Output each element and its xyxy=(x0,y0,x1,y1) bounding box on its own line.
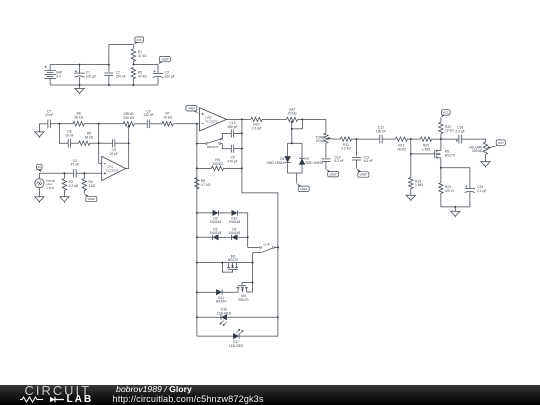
ground (input coupling) xyxy=(35,132,44,138)
diode D3 1N4148 xyxy=(213,235,219,240)
label R10 2.2 kΩ xyxy=(252,123,262,131)
svg-text:1N4148: 1N4148 xyxy=(229,231,241,235)
junction (278,248) xyxy=(277,247,279,249)
wire clipper top xyxy=(288,142,302,144)
label C9 10 pF xyxy=(109,148,117,156)
label C24 2.2 µF xyxy=(477,185,486,193)
wire xyxy=(296,173,298,184)
svg-text:26 kΩ: 26 kΩ xyxy=(74,115,83,119)
wire input row xyxy=(39,172,73,174)
resistor R9 xyxy=(212,166,224,170)
wire xyxy=(301,165,303,174)
svg-text:100 nF: 100 nF xyxy=(116,74,126,78)
ground (source) xyxy=(35,197,44,203)
label D10 1N4148 xyxy=(229,217,241,225)
label BAT 9 V xyxy=(56,70,62,78)
junction (133,85) xyxy=(132,84,134,86)
label R8 4.7 kΩ xyxy=(201,179,211,187)
wire OA2 non-inverting stub xyxy=(199,113,200,115)
wire R3 top lead xyxy=(63,173,65,178)
wire source network top xyxy=(441,168,470,189)
svg-text:2.2 kΩ: 2.2 kΩ xyxy=(252,126,262,130)
junction (253,282) xyxy=(252,281,254,283)
wire source top lead xyxy=(38,173,40,179)
label C7 10 nF xyxy=(45,109,53,117)
label C1 100 µF xyxy=(86,70,96,78)
junction (99,124) xyxy=(98,123,100,125)
LED D16 LED-RED xyxy=(221,315,227,320)
wire xyxy=(197,236,213,238)
potentiometer SAT (20k) xyxy=(287,117,298,121)
label C5 470 pF xyxy=(227,156,237,164)
svg-text:250 kΩ: 250 kΩ xyxy=(123,116,134,120)
net flag VREF (divider) xyxy=(158,56,170,64)
diode D10 1N4148 xyxy=(232,210,238,215)
battery BAT xyxy=(44,66,56,79)
svg-text:TLC2272: TLC2272 xyxy=(106,169,119,173)
junction (84,173) xyxy=(83,172,85,174)
capacitor C14 xyxy=(459,135,461,144)
junction (441,139) xyxy=(440,138,442,140)
wire to BRIGHT switch xyxy=(197,143,206,145)
svg-text:IN: IN xyxy=(38,165,41,169)
resistor R1 xyxy=(131,49,135,62)
wire xyxy=(238,236,248,238)
capacitor C24 (electrolytic) xyxy=(465,185,475,192)
wire xyxy=(247,282,253,292)
junction (99,143) xyxy=(98,142,100,144)
diode D11 BAT54 xyxy=(216,290,222,295)
label C6 120 nF xyxy=(143,109,153,117)
label R7 10 kΩ xyxy=(163,112,172,120)
net flag VREF (R4) xyxy=(84,194,97,202)
svg-text:180 pF: 180 pF xyxy=(227,125,237,129)
switch CLIP xyxy=(260,247,275,253)
resistor R23 xyxy=(439,183,443,194)
junction (129,143) xyxy=(128,142,130,144)
junction (197,144) xyxy=(196,143,198,145)
wire xyxy=(301,143,303,158)
wire to OA1 inverting input xyxy=(99,162,102,164)
wire VCC rail xyxy=(50,64,109,66)
label D17 LED-RED xyxy=(229,340,244,348)
potentiometer DRIVE wiper xyxy=(127,125,130,169)
label D3 1N4148 xyxy=(210,227,222,235)
svg-text:2.2 kΩ: 2.2 kΩ xyxy=(69,184,79,188)
diode D4 1N4148 xyxy=(232,235,238,240)
svg-text:20 kΩ: 20 kΩ xyxy=(288,112,297,116)
svg-text:VREF: VREF xyxy=(360,173,368,177)
resistor R3 xyxy=(62,179,66,191)
junction (278,317) xyxy=(277,316,279,318)
wire xyxy=(197,291,216,293)
capacitor C12 xyxy=(380,135,382,144)
wire xyxy=(150,123,162,125)
junction (356,139) xyxy=(356,138,358,140)
wire xyxy=(440,117,442,122)
label M4 BS170 xyxy=(239,294,249,302)
op-amp OA2 TLC2272 xyxy=(200,108,227,131)
wire xyxy=(252,253,254,283)
resistor R4 xyxy=(82,179,86,191)
svg-text:LED-RED: LED-RED xyxy=(229,344,244,348)
wire xyxy=(325,143,327,157)
junction (292,129) xyxy=(291,128,293,130)
net flag VREF (OA2+) xyxy=(186,106,199,114)
label R9 330 kΩ xyxy=(212,158,223,166)
capacitor C4 xyxy=(74,169,76,178)
svg-text:47 kΩ: 47 kΩ xyxy=(138,54,147,58)
transistor M4 BS170 (diode-connected) xyxy=(237,282,253,292)
label C13 180 pF xyxy=(227,121,237,129)
LED D16 rays xyxy=(220,321,227,326)
wire xyxy=(99,142,113,144)
svg-text:10 nF: 10 nF xyxy=(65,133,73,137)
svg-text:330 kΩ: 330 kΩ xyxy=(212,162,223,166)
resistor R20 xyxy=(420,137,431,141)
ground (power section) xyxy=(75,88,84,94)
label R19 1 MΩ xyxy=(415,179,423,187)
capacitor C3 (electrolytic) xyxy=(153,70,163,77)
junction (411,139) xyxy=(410,138,412,140)
potentiometer TONE wiper xyxy=(327,137,335,140)
ground (R19) xyxy=(406,195,415,201)
wire xyxy=(234,148,242,150)
svg-text:VCC: VCC xyxy=(443,111,450,115)
transistor M3 BS170 (diode-connected) xyxy=(222,263,238,273)
svg-text:1 kHz: 1 kHz xyxy=(46,186,54,190)
capacitor C11 xyxy=(352,158,361,161)
wire R2 bottom lead xyxy=(132,79,134,85)
svg-text:100 nF: 100 nF xyxy=(376,129,386,133)
wire R1 top lead xyxy=(132,44,134,48)
svg-text:2.2 µF: 2.2 µF xyxy=(477,189,486,193)
svg-text:470 Ω: 470 Ω xyxy=(445,189,454,193)
resistor R12 xyxy=(395,137,407,141)
wire R4 bottom lead xyxy=(83,191,85,194)
junction (59,124) xyxy=(58,123,60,125)
resistor R11 xyxy=(340,137,351,141)
wire xyxy=(335,138,340,140)
svg-text:4.7 kΩ: 4.7 kΩ xyxy=(201,183,211,187)
wire xyxy=(325,161,327,169)
svg-text:20 kΩ: 20 kΩ xyxy=(316,139,325,143)
svg-text:OUT: OUT xyxy=(498,141,504,145)
diode D9 1N4148 xyxy=(213,210,219,215)
plus mark C14 xyxy=(456,140,458,142)
label R5 36 kΩ xyxy=(85,132,94,140)
svg-text:120 nF: 120 nF xyxy=(143,113,153,117)
voltage source V1 (pickup sine) xyxy=(35,179,44,188)
junction (197,263) xyxy=(196,262,198,264)
label D7 SMD 1N914 xyxy=(305,157,323,165)
capacitor C8 xyxy=(68,139,70,148)
wire OA2 output xyxy=(227,118,242,120)
potentiometer TONE (20k) xyxy=(324,133,328,143)
resistor R22 xyxy=(439,122,443,133)
label R1 47 kΩ xyxy=(138,50,147,58)
wire xyxy=(432,138,459,140)
wire xyxy=(50,123,73,125)
net flag VCC (output) xyxy=(441,110,450,118)
junction (109,65) xyxy=(108,64,110,66)
wire row3 xyxy=(197,262,253,264)
wire xyxy=(71,142,79,144)
label R2 47 kΩ xyxy=(138,70,147,78)
wire xyxy=(173,123,197,125)
wire xyxy=(134,123,147,125)
svg-text:47 nF: 47 nF xyxy=(71,163,79,167)
svg-text:78 kΩ: 78 kΩ xyxy=(397,148,406,152)
net flag VREF (C11) xyxy=(357,168,369,177)
wire input row right xyxy=(76,172,102,174)
junction (441,168) xyxy=(440,167,442,169)
wire R1 bottom lead xyxy=(132,61,134,64)
wire xyxy=(440,168,442,183)
junction (253,263) xyxy=(252,262,254,264)
capacitor C6 xyxy=(147,120,149,129)
junction (197,292) xyxy=(196,291,198,293)
svg-text:VCC: VCC xyxy=(136,38,143,42)
wire xyxy=(248,246,260,248)
label C2 100 nF xyxy=(116,70,126,78)
label R22 12 kΩ xyxy=(445,125,454,133)
svg-text:470 pF: 470 pF xyxy=(227,159,237,163)
wire source network bottom xyxy=(441,192,470,207)
wire to C13 xyxy=(222,133,231,139)
LED D17 rays xyxy=(236,329,243,334)
net flag VREF (tone cap) xyxy=(326,169,339,177)
junction (411,154) xyxy=(410,153,412,155)
svg-text:SMD 1N914: SMD 1N914 xyxy=(267,161,285,165)
junction (197,168) xyxy=(196,167,198,169)
wire xyxy=(356,139,358,156)
svg-text:VREF: VREF xyxy=(188,107,196,111)
capacitor C13 xyxy=(231,129,233,137)
junction (248,237) xyxy=(247,236,249,238)
resistor R7 xyxy=(162,122,173,126)
svg-text:1 MΩ: 1 MΩ xyxy=(422,148,430,152)
wire xyxy=(287,143,289,156)
wire C1 bottom lead xyxy=(79,77,81,85)
resistor R10 xyxy=(251,117,262,121)
wire xyxy=(242,118,251,120)
wire OA2 inverting node riser xyxy=(196,124,198,189)
svg-text:VREF: VREF xyxy=(161,57,169,61)
svg-text:TLC2272: TLC2272 xyxy=(205,120,218,124)
wire M2 drain lead xyxy=(440,139,442,150)
wire xyxy=(325,119,327,133)
wire xyxy=(298,118,326,120)
op-amp OA1 TLC2272 xyxy=(102,156,126,180)
ground (VOLUME) xyxy=(481,162,490,168)
wire C2 bottom lead xyxy=(108,76,110,86)
resistor R6 xyxy=(73,122,84,126)
potentiometer SAT wiper xyxy=(290,120,293,143)
junction (242,168) xyxy=(241,167,243,169)
svg-text:VREF: VREF xyxy=(87,197,95,201)
svg-text:1 MΩ: 1 MΩ xyxy=(415,183,423,187)
svg-text:100 µF: 100 µF xyxy=(86,74,96,78)
label M3 BS170 xyxy=(228,254,238,262)
wire xyxy=(197,167,212,169)
junction (292,143) xyxy=(291,142,293,144)
junction (242,119) xyxy=(241,118,243,120)
wire xyxy=(262,118,286,120)
junction (242,133) xyxy=(241,132,243,134)
label R12 78 kΩ xyxy=(397,144,406,152)
label D9 1N4148 xyxy=(210,217,222,225)
wire xyxy=(352,138,380,140)
wire xyxy=(84,123,123,125)
LED D17 LED-RED xyxy=(233,333,239,338)
wire xyxy=(39,123,48,125)
label C11 6.2 nF xyxy=(364,155,373,163)
wire gate node riser xyxy=(410,139,412,177)
wire xyxy=(407,138,420,140)
label C3 100 µF xyxy=(165,70,175,78)
ground (source network) xyxy=(451,211,460,217)
label C12 100 nF xyxy=(376,126,386,134)
wire C1 top lead xyxy=(79,65,81,74)
svg-text:BS170: BS170 xyxy=(239,298,249,302)
wire CLIP common stub xyxy=(253,252,261,254)
junction (302,119) xyxy=(301,118,303,120)
wire xyxy=(238,213,248,248)
label D11 BAT54 xyxy=(216,296,226,304)
ground (R3) xyxy=(60,197,69,203)
label R23 470 Ω xyxy=(445,185,454,193)
wire output node rail xyxy=(242,119,278,336)
junction (242,149) xyxy=(241,148,243,150)
svg-text:10 kΩ: 10 kΩ xyxy=(163,115,172,119)
wire to VOLUME xyxy=(461,139,485,142)
wire ground stem xyxy=(79,85,81,88)
junction (133,64) xyxy=(132,63,134,65)
resistor R2 xyxy=(131,67,135,78)
resistor R5 xyxy=(79,141,90,145)
resistor R19 xyxy=(409,177,413,188)
svg-text:1N4148: 1N4148 xyxy=(229,220,241,224)
label R6 26 kΩ xyxy=(74,112,83,120)
net flag VREF (clipper) xyxy=(297,183,310,191)
svg-text:1N4148: 1N4148 xyxy=(210,231,222,235)
label M2 BS170 xyxy=(445,150,455,158)
wire left rail xyxy=(196,189,198,336)
label D16 LED-RED xyxy=(217,308,232,316)
svg-text:9 V: 9 V xyxy=(56,74,62,78)
wire xyxy=(219,212,232,214)
wire xyxy=(224,167,242,169)
label D4 1N4148 xyxy=(229,227,241,235)
wire to C8 branch xyxy=(59,124,68,143)
switch BRIGHT xyxy=(206,138,223,144)
junction (222,263) xyxy=(221,262,223,264)
wire C2 top lead xyxy=(108,65,110,72)
svg-text:BRIGHT: BRIGHT xyxy=(207,145,219,149)
svg-text:10 nF: 10 nF xyxy=(45,113,53,117)
svg-text:6.2 nF: 6.2 nF xyxy=(364,159,373,163)
junction (109,85) xyxy=(108,84,110,86)
svg-text:2.2 µF: 2.2 µF xyxy=(455,129,464,133)
wire source bottom lead xyxy=(38,188,40,197)
capacitor C1 (electrolytic) xyxy=(74,70,84,77)
wire C3 top lead xyxy=(157,64,159,73)
junction (197,124) xyxy=(196,123,198,125)
wire to OA2 inverting input xyxy=(197,123,200,125)
label pickup sine 1 kHz xyxy=(46,179,55,190)
svg-text:2.2 kΩ: 2.2 kΩ xyxy=(341,147,351,151)
svg-text:SMD 1N914: SMD 1N914 xyxy=(305,161,323,165)
label D6 SMD 1N914 xyxy=(267,157,285,165)
wire xyxy=(197,212,213,214)
svg-text:36 kΩ: 36 kΩ xyxy=(85,135,94,139)
wire xyxy=(274,247,278,249)
label R3 2.2 kΩ xyxy=(69,180,79,188)
junction (197,317) xyxy=(196,316,198,318)
wire VREF node row xyxy=(133,63,158,65)
svg-text:10 pF: 10 pF xyxy=(109,152,117,156)
svg-text:1N4148: 1N4148 xyxy=(210,220,222,224)
capacitor C7 xyxy=(48,120,51,129)
wire bottom rail xyxy=(50,84,158,86)
svg-text:VREF: VREF xyxy=(300,187,308,191)
capacitor C2 xyxy=(104,73,113,76)
wire SAT rheostat loop xyxy=(292,119,303,128)
junction (80,65) xyxy=(79,64,81,66)
wire row6 xyxy=(197,335,278,337)
wire OA1 output stub xyxy=(126,168,129,170)
wire xyxy=(234,132,242,134)
label TONE 20 kΩ xyxy=(315,135,325,143)
label SAT 20 kΩ xyxy=(288,108,297,116)
wire battery bottom lead xyxy=(49,79,51,85)
svg-text:VREF: VREF xyxy=(329,172,337,176)
label C4 47 nF xyxy=(71,159,79,167)
wire R4 top lead xyxy=(83,173,85,178)
junction (455,207) xyxy=(454,206,456,208)
label R20 1 MΩ xyxy=(422,144,430,152)
wire row5 xyxy=(197,316,278,318)
capacitor C5 xyxy=(231,145,233,153)
label C10 6.2 nF xyxy=(335,155,344,163)
svg-text:BAT54: BAT54 xyxy=(216,300,226,304)
svg-text:1 kΩ: 1 kΩ xyxy=(89,184,96,188)
wire xyxy=(222,291,238,293)
label C14 2.2 µF xyxy=(455,126,464,134)
junction (64,173) xyxy=(63,172,65,174)
wire to M2 gate xyxy=(411,153,435,155)
transistor M2 BS170 xyxy=(435,150,441,159)
resistor R8 xyxy=(195,178,199,189)
svg-text:CLIP: CLIP xyxy=(263,242,270,246)
wire xyxy=(356,160,358,169)
wire xyxy=(219,236,232,238)
wire to input ground xyxy=(38,124,40,132)
wire clipper bottom xyxy=(288,172,302,174)
wire M2 source lead xyxy=(440,158,442,168)
wire battery top lead xyxy=(49,65,51,71)
wire xyxy=(115,142,129,144)
capacitor C10 xyxy=(321,159,330,162)
wire xyxy=(287,164,289,174)
potentiometer DRIVE (250k) xyxy=(123,122,134,126)
svg-text:6.2 nF: 6.2 nF xyxy=(335,159,344,163)
label R4 1 kΩ xyxy=(89,180,96,188)
svg-text:LED-RED: LED-RED xyxy=(217,311,232,315)
net flag OUT xyxy=(495,140,505,146)
potentiometer VOLUME wiper xyxy=(487,146,495,149)
